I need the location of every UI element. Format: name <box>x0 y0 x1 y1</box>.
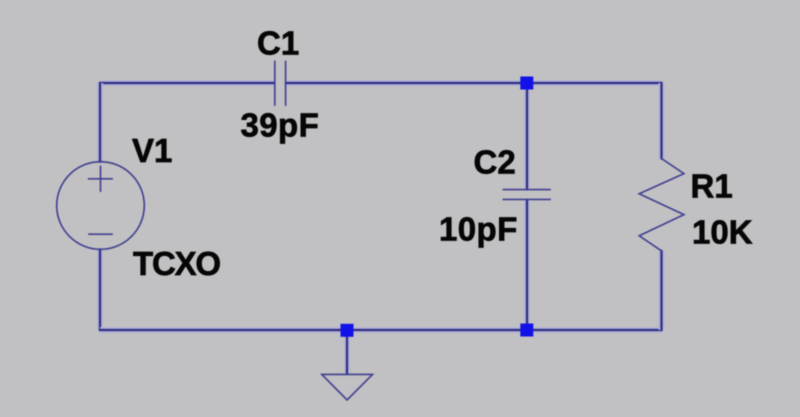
svg-text:C1: C1 <box>257 25 299 62</box>
capacitor C2 plates <box>503 190 550 200</box>
svg-text:10pF: 10pF <box>439 211 518 248</box>
wire left vertical, corner down to V1 top pin <box>97 83 103 162</box>
wire right vertical, top rail down to R1 top <box>659 83 665 159</box>
capacitor C1 plates <box>275 62 286 106</box>
svg-text:V1: V1 <box>132 132 172 169</box>
junction node C2 tap on bottom rail <box>520 324 533 337</box>
voltage source V1 circle body <box>57 162 145 250</box>
wire bottom horizontal rail <box>100 327 662 333</box>
svg-text:10K: 10K <box>692 214 753 251</box>
wire top horizontal, C1 right plate to top-right corner <box>286 80 662 86</box>
junction node ground tap on bottom rail <box>341 324 354 337</box>
svg-text:C2: C2 <box>474 143 516 180</box>
junction node top (C2 tap on top rail) <box>520 77 533 90</box>
wire right vertical, R1 bottom down to bottom rail <box>659 251 665 330</box>
wire C2 top lead from junction <box>524 89 530 189</box>
wire top horizontal, V1 corner to C1 left plate <box>100 80 274 86</box>
svg-text:R1: R1 <box>691 168 733 205</box>
svg-text:TCXO: TCXO <box>133 245 220 282</box>
resistor R1 zigzag <box>639 159 684 251</box>
wire C2 bottom lead to bottom rail <box>524 200 530 330</box>
ground symbol triangle <box>322 374 373 400</box>
wire ground lead from bottom rail junction <box>344 336 350 374</box>
svg-text:39pF: 39pF <box>241 106 320 143</box>
V1 plus sign <box>89 167 112 192</box>
wire left vertical, V1 bottom pin down to bottom rail <box>97 249 103 330</box>
V1 minus sign <box>89 233 112 235</box>
